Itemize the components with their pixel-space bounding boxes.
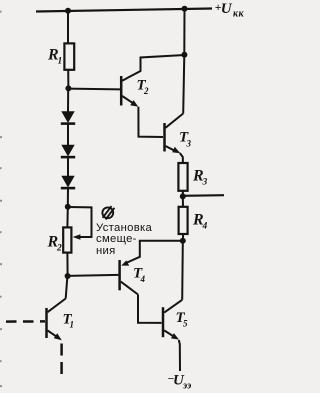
svg-text:4: 4 [140, 274, 146, 284]
wire top supply rail [36, 9, 212, 12]
wire right rail top [183, 9, 184, 114]
diode D2 [61, 145, 75, 159]
wire D1 to D2 [67, 124, 69, 145]
svg-text:4: 4 [202, 222, 208, 232]
svg-text:U: U [221, 1, 233, 17]
svg-text:3: 3 [202, 178, 208, 188]
svg-text:5: 5 [183, 319, 188, 329]
diode D1 [61, 111, 75, 125]
arrowhead T4 emitter (PNP, into bar) [121, 260, 129, 265]
diode D3 [61, 176, 75, 190]
wire left rail to D1 [67, 88, 69, 111]
wire output tap [183, 194, 224, 197]
wire T5 emitter lead to -Uээ [179, 340, 180, 371]
svg-text:1: 1 [58, 57, 63, 67]
transistor T1 [47, 299, 75, 341]
svg-text:смеще-: смеще- [96, 233, 137, 245]
wire T3 emitter to R3 [180, 153, 183, 163]
node junction rail / R1 [65, 8, 71, 14]
resistor R2 (bias potentiometer) [47, 227, 72, 253]
wire T4 collector to T5 base [138, 295, 162, 323]
wire D2 to D3 [67, 158, 69, 177]
node junction R4 / T4 emitter / T5 collector [180, 238, 186, 244]
svg-text:ния: ния [96, 245, 116, 257]
wire R2 bottom lead [66, 253, 68, 276]
wire R4 top lead [182, 196, 184, 206]
wire D3 to node D [67, 189, 69, 207]
wire R3 bottom lead [182, 191, 184, 197]
node junction rail / right rail [182, 6, 188, 12]
wire R2 top lead [66, 207, 68, 228]
svg-text:1: 1 [70, 320, 75, 330]
wire T2 base [68, 88, 120, 91]
resistor R3 [178, 163, 207, 191]
wire T4 base [68, 275, 119, 276]
wire dashed T1 emitter output [60, 344, 63, 376]
label Установка смещения [96, 222, 153, 257]
label +Uкк [215, 1, 245, 20]
svg-text:2: 2 [143, 86, 149, 96]
wire dashed T1 base input [6, 320, 45, 323]
svg-text:Установка: Установка [96, 222, 153, 234]
transistor T2 [121, 55, 184, 107]
wire node to T4 emitter [124, 241, 183, 264]
wire R1 top lead [67, 11, 69, 44]
adjustment symbol (screwdriver slot) [102, 206, 114, 219]
resistor R1 [47, 43, 74, 69]
wire R2 wiper bracket [68, 207, 92, 237]
svg-text:3: 3 [186, 139, 192, 149]
node junction R2 / T4 base / T1 collector [65, 273, 71, 279]
wiper arrowhead into R2 [73, 234, 81, 240]
svg-text:2: 2 [56, 244, 62, 254]
node junction diodes / R2 wiper bracket [65, 204, 71, 210]
node junction R3 / R4 / output [180, 193, 186, 199]
wire T5 collector to node [181, 243, 184, 300]
wire left rail to T1 [66, 276, 68, 299]
resistor R4 [179, 207, 208, 234]
wire R4 bottom lead [182, 234, 184, 241]
node junction R1 / T2 base [65, 85, 71, 91]
label -Uээ [167, 373, 191, 392]
wire R1 bottom lead [67, 70, 69, 89]
transistor T5 [163, 300, 188, 340]
wire T2 emitter to T3 base [138, 107, 163, 137]
transistor T3 [165, 114, 192, 154]
svg-text:ээ: ээ [182, 381, 191, 392]
svg-text:кк: кк [233, 9, 244, 20]
transistor T4 [120, 260, 146, 295]
node junction T2 collector / right rail [181, 52, 187, 58]
